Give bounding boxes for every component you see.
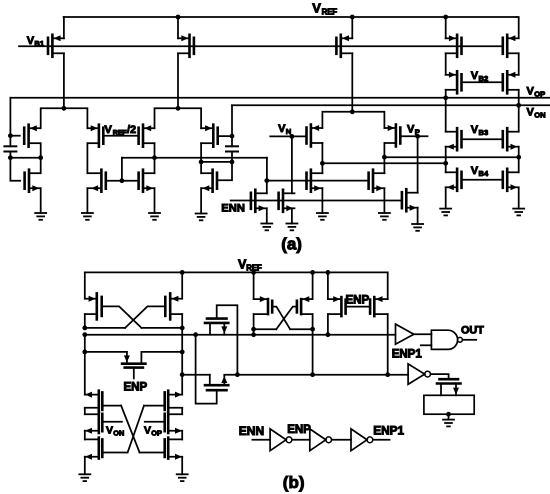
wire latch2 cross left — [272, 307, 290, 330]
wire mirror gate riser — [121, 158, 123, 181]
wire inv4 to inv5 — [292, 439, 310, 441]
wire VON drop — [230, 105, 235, 138]
transistor M17 (ENN NMOS 2) — [279, 190, 295, 212]
svg-text:ENP1: ENP1 — [373, 424, 404, 438]
wire M22 source down — [417, 208, 419, 224]
capacitor C2 — [226, 146, 238, 151]
svg-text:ON: ON — [113, 428, 124, 437]
svg-text:OP: OP — [151, 428, 162, 437]
wire ENN gate line — [231, 200, 402, 202]
svg-text:B4: B4 — [479, 169, 489, 178]
svg-text:(b): (b) — [283, 473, 305, 492]
wire M21 source down — [383, 188, 385, 213]
wire latch1 cross right — [125, 306, 165, 328]
transistor M11 (mirror NMOS A) — [87, 170, 105, 192]
wire M5 drain to M7 — [518, 53, 520, 75]
wire M5 source from VREF corner — [517, 17, 519, 38]
svg-text:ENN: ENN — [221, 202, 245, 214]
wire cascode gate line — [267, 180, 369, 182]
transistor M27 (latch1 left PMOS) — [85, 293, 102, 319]
svg-text:V: V — [106, 424, 113, 436]
transistor M36R (input latch top R) — [165, 391, 183, 412]
wire pair B source box — [155, 106, 202, 128]
node (b) caption — [283, 473, 305, 492]
svg-text:V: V — [105, 124, 113, 136]
wire VREF/2 gate line — [103, 135, 138, 137]
transistor M18 (input PMOS VN) — [307, 125, 323, 147]
wire enn to inv — [252, 439, 270, 441]
wire tr1 gate left — [102, 405, 121, 407]
transistor M20 (cascode NMOS) — [307, 170, 323, 192]
node VREF label — [312, 1, 337, 17]
wire buffer out — [414, 333, 432, 335]
ground G2 — [82, 213, 93, 220]
wire M2 drain down — [177, 53, 179, 108]
wire VREF top rail — [64, 16, 517, 18]
wire M9 source down — [40, 188, 42, 213]
transistor M8 (diff pair A left PMOS) — [24, 125, 40, 147]
ground G11 — [513, 209, 524, 216]
node OUT label — [461, 325, 484, 337]
wire tr1 gate right — [144, 405, 165, 407]
wire M28 source up — [180, 270, 185, 299]
wire left column — [84, 335, 86, 395]
wire VN input line — [270, 134, 306, 139]
wire M16 source down — [266, 208, 268, 223]
wire M32 source up — [251, 270, 256, 299]
svg-text:ON: ON — [534, 111, 545, 120]
wire signal line B — [82, 332, 395, 337]
node ENP label chain — [287, 424, 311, 436]
transistor M23 (VB3 NMOS left) — [446, 128, 462, 150]
wire M13 source down — [154, 188, 156, 213]
wire line2 seg2 — [224, 372, 408, 377]
svg-text:ENP: ENP — [287, 424, 311, 436]
wire right column — [180, 328, 185, 395]
transistor M25 (VB4 NMOS left) — [446, 169, 462, 191]
transistor M7 (VB2 PMOS right) — [503, 71, 519, 93]
wire NMOS mirror gate lines — [106, 178, 139, 183]
transistor M12 (diff pair B left PMOS) — [139, 125, 155, 147]
node VREF label b — [238, 257, 262, 272]
wire M35 drain down — [387, 314, 389, 375]
wire M22 drain up to VP — [417, 136, 419, 192]
wire M18 drain down — [320, 143, 325, 173]
transistor M31 (pass NMOS PT2) — [205, 375, 228, 391]
transistor M28 (latch1 right PMOS) — [165, 293, 182, 319]
ground G1 — [35, 213, 46, 220]
wire VB2 gate line — [462, 81, 503, 83]
wire gate line to M8 — [10, 135, 19, 137]
transistor M33 (latch2 right PMOS) — [297, 296, 313, 314]
svg-text:V: V — [312, 1, 321, 16]
wire M2 source to VREF — [176, 15, 181, 39]
wire M27 source up — [84, 272, 86, 298]
wire VB4 gate line — [462, 179, 503, 181]
wire latch1 cross left — [102, 306, 142, 328]
wire M8 drain down — [40, 143, 42, 158]
buffer U1 (ENP1 buffer) — [396, 324, 414, 344]
svg-text:ENP: ENP — [124, 381, 148, 393]
ground G3 — [149, 213, 160, 220]
transistor M1 (VB1 PMOS left) — [48, 35, 64, 57]
node VON label — [527, 107, 546, 120]
node VB1 label — [27, 35, 45, 48]
wire VB1 gate rail — [19, 45, 503, 47]
wire M1 drain down — [63, 53, 65, 108]
wire inv5 to inv6 — [332, 439, 351, 441]
svg-text:B2: B2 — [479, 74, 489, 83]
wire VP input line — [400, 134, 427, 139]
wire M6 drain to VOP — [443, 90, 448, 100]
wire X2 diag 2 — [128, 406, 144, 453]
wire M27 drain down — [82, 314, 87, 330]
wire OUT — [462, 339, 476, 341]
wire mid rail — [122, 157, 267, 159]
wire M17 drain up to VN — [291, 136, 293, 193]
wire VB3 gate line — [462, 138, 503, 140]
wire M15 gate tie — [217, 162, 232, 180]
capacitor C3 (MOS cap box) — [424, 395, 474, 416]
wire M3 drain down — [351, 53, 353, 112]
transistor M38R (input latch bot R) — [165, 438, 183, 460]
node VB3 label — [471, 124, 488, 137]
wire VREF rail b — [85, 271, 388, 273]
wire M34 drain down — [327, 314, 329, 335]
wire M12 drain down — [152, 143, 157, 173]
node VOP stub — [144, 422, 165, 438]
transistor M24 (VB3 NMOS right) — [503, 128, 519, 150]
gate U2 (NAND) — [431, 330, 462, 349]
node ENN label b — [239, 424, 264, 438]
transistor M19 (input PMOS VP) — [384, 125, 400, 147]
node VB2 label — [471, 70, 488, 83]
wire M9 drain up — [40, 158, 42, 174]
wire latch column R links — [181, 408, 183, 474]
wire X2 diag 1 — [121, 406, 140, 453]
wire M10 drain to M11 — [86, 143, 88, 173]
transistor M29 (ENP tail PMOS rotated) — [122, 352, 145, 379]
ground G6 — [286, 224, 297, 231]
transistor M15 (NMOS diode C) — [201, 170, 217, 192]
wire M32 drain down — [251, 314, 256, 335]
wire C1 bottom stub — [8, 152, 13, 161]
transistor M22 (VP NMOS) — [402, 189, 418, 211]
svg-text:REF: REF — [322, 8, 338, 17]
svg-text:ENN: ENN — [239, 424, 264, 438]
wire M1 source to VREF — [63, 17, 65, 38]
wire M33 drain down — [310, 314, 315, 375]
wire M7 drain to VON — [516, 90, 521, 108]
svg-text:ENP1: ENP1 — [392, 348, 423, 360]
ground G7 — [317, 213, 328, 220]
transistor M36L (input latch top L) — [85, 391, 103, 412]
svg-text:P: P — [415, 127, 420, 136]
node ENN label — [221, 202, 245, 214]
transistor M13 (mirror NMOS B) — [139, 170, 155, 192]
wire C1 top stub — [9, 136, 11, 147]
transistor M38L (input latch bot L) — [85, 438, 103, 460]
transistor M26 (VB4 NMOS right) — [503, 169, 519, 191]
wire PT1 gate wire — [217, 305, 238, 374]
wire nand input2 — [421, 344, 432, 346]
ground G4 — [196, 214, 207, 221]
ground GLb — [79, 474, 90, 481]
wire M28 drain down — [180, 314, 185, 330]
wire M15 source down — [200, 188, 202, 213]
svg-text:B3: B3 — [479, 128, 489, 137]
node VP label — [407, 123, 420, 136]
wire M25 source down — [445, 187, 447, 208]
wire tail line right — [141, 350, 184, 355]
wire PT2 gate wire — [196, 335, 217, 404]
wire tail line left — [82, 350, 127, 355]
ground G12 — [443, 414, 454, 426]
node (a) caption — [281, 235, 302, 254]
node ENP label switch — [346, 294, 370, 306]
wire latch1 node left — [85, 327, 125, 329]
svg-text:OP: OP — [534, 90, 545, 99]
wire latch2 node right — [290, 328, 313, 330]
inverter U3 — [408, 364, 430, 384]
wire latch2 cross right — [276, 307, 297, 330]
node ENP1 label chain — [373, 424, 404, 438]
wire C2 bottom stub — [231, 152, 233, 162]
transistor M16 (ENN NMOS 1) — [251, 190, 267, 212]
wire M24 source down — [518, 147, 520, 158]
wire latch1 node right — [142, 327, 183, 329]
inverter U4 — [270, 429, 292, 451]
wire C2 top stub — [231, 136, 233, 146]
wire M33 source up — [310, 270, 315, 299]
wire latch2 node left — [254, 328, 277, 330]
svg-text:V: V — [144, 424, 151, 436]
wire fold line lower — [322, 161, 448, 166]
wire M20 source down — [321, 188, 323, 213]
svg-text:(a): (a) — [281, 235, 302, 254]
transistor M4 (cascode PMOS top-left) — [446, 35, 462, 57]
transistor M2 (VB1 PMOS mid) — [178, 35, 194, 57]
wire pair A source box — [41, 106, 88, 128]
wire M25 drain up — [445, 163, 447, 172]
node VB4 label — [471, 165, 489, 178]
inverter U5 — [310, 429, 332, 451]
ground G9 — [412, 224, 423, 231]
transistor M10 (diff pair A right PMOS) — [87, 125, 103, 147]
wire M16 drain up — [264, 178, 269, 193]
wire M23 drain up to VOP — [445, 98, 447, 132]
transistor M35 (ENP switch right PMOS) — [370, 296, 388, 316]
wire M35 source up corner — [387, 272, 389, 299]
wire tr3 gate right — [140, 452, 165, 454]
wire mid rail drop — [266, 158, 268, 181]
wire M24 drain up to VON — [518, 105, 520, 131]
svg-text:OUT: OUT — [461, 325, 484, 337]
wire M14 drain down — [199, 143, 204, 173]
node VN label — [278, 123, 291, 136]
transistor M14 (diff pair B right PMOS) — [201, 125, 218, 147]
wire VOP drop left branch — [8, 98, 13, 138]
ground G5 — [261, 224, 272, 231]
wire VOP rail — [10, 97, 549, 99]
svg-text:ENP: ENP — [346, 294, 370, 306]
wire ENP gate line — [346, 306, 371, 308]
wire M34 source up — [326, 270, 331, 299]
ground GRb — [177, 474, 188, 481]
wire tr3 gate left — [102, 452, 127, 454]
node VREF/2 label — [105, 124, 137, 137]
wire M11 source down — [86, 188, 88, 213]
inverter U6 — [351, 429, 373, 451]
svg-text:/2: /2 — [127, 124, 136, 136]
wire input pair source box — [322, 109, 384, 128]
wire chain out — [374, 439, 390, 441]
transistor M34 (ENP switch left PMOS) — [328, 296, 346, 316]
wire M4 drain to M6 — [445, 53, 447, 75]
node ENP label tail — [124, 381, 148, 393]
wire M14 gate line — [218, 135, 232, 137]
wire M3 source to VREF — [350, 15, 355, 39]
wire mirror node line — [201, 160, 234, 165]
wire VON rail — [232, 104, 550, 106]
transistor M37L (input latch mid L) — [85, 412, 103, 434]
transistor M39 (out NMOS rotated) — [437, 379, 461, 395]
transistor M37R (input latch mid R) — [165, 412, 183, 434]
wire line2 seg1 — [182, 374, 210, 376]
transistor M9 (NMOS diode left) — [25, 170, 41, 192]
wire U3 out — [431, 374, 449, 379]
wire M17 source down — [291, 208, 293, 223]
transistor M6 (VB2 PMOS left) — [446, 71, 462, 93]
wire latch column L links — [84, 408, 86, 474]
node ENP1 label nand — [392, 348, 423, 360]
wire M23 source down — [445, 147, 447, 164]
capacitor C1 — [4, 146, 16, 151]
transistor M5 (cascode PMOS top-right) — [503, 35, 519, 57]
svg-text:REF: REF — [113, 130, 128, 137]
svg-text:B1: B1 — [34, 39, 44, 48]
wire M9 gate L — [10, 158, 20, 181]
node VOP label — [527, 86, 546, 99]
ground G10 — [440, 209, 451, 216]
wire M19 drain down — [382, 143, 387, 173]
transistor M21 (sink NMOS) — [369, 170, 385, 192]
wire M4 source to VREF — [443, 15, 448, 39]
node VON stub — [102, 422, 124, 438]
transistor M3 (VREF PMOS) — [336, 35, 352, 57]
ground G8 — [379, 213, 390, 220]
wire node to M9 drain — [10, 155, 43, 160]
wire M26 drain up — [518, 157, 520, 172]
wire fold line upper — [384, 155, 521, 160]
transistor M30 (pass NMOS PT1) — [205, 319, 228, 335]
transistor M32 (latch2 left PMOS) — [254, 296, 273, 314]
wire M26 source down — [518, 187, 520, 208]
svg-text:N: N — [286, 127, 291, 136]
